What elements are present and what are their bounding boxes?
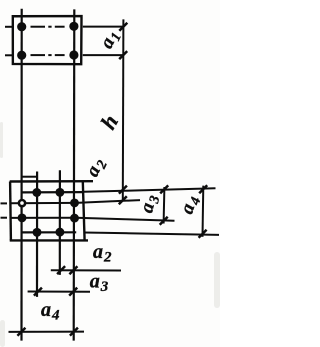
svg-text:h: h (95, 110, 123, 133)
svg-text:a3: a3 (90, 271, 109, 296)
svg-text:a2: a2 (93, 241, 112, 266)
svg-text:a4: a4 (176, 193, 204, 217)
svg-text:a2: a2 (82, 155, 111, 181)
svg-text:a3: a3 (136, 192, 163, 215)
svg-text:a4: a4 (41, 299, 60, 324)
